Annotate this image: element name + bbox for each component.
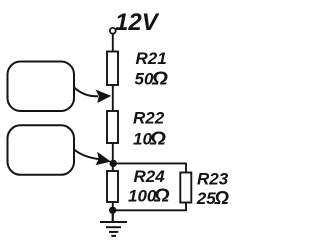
wire R24 to ground node B <box>112 201 114 222</box>
resistor R22 <box>107 111 118 143</box>
wire from supply terminal to R21 <box>112 34 114 54</box>
arrow 2 shaft (callout 2 to node A) <box>74 150 100 160</box>
svg-text:Ω: Ω <box>149 127 167 148</box>
wire R22 to R24 through node A <box>112 142 114 172</box>
resistor R21 <box>107 52 118 86</box>
svg-text:12V: 12V <box>115 9 160 36</box>
node B junction dot <box>109 207 116 214</box>
node A junction dot <box>110 160 117 167</box>
svg-text:R23: R23 <box>197 170 229 189</box>
svg-text:25: 25 <box>196 189 216 208</box>
arrow 1 head <box>96 90 112 103</box>
resistor R23 <box>180 173 191 203</box>
arrow 1 shaft (callout 1 to R21-R22 wire) <box>74 88 98 97</box>
svg-text:Ω: Ω <box>153 185 170 206</box>
svg-text:R24: R24 <box>134 167 166 186</box>
svg-text:R22: R22 <box>133 109 165 128</box>
svg-text:100: 100 <box>128 187 157 206</box>
svg-text:R21: R21 <box>136 49 167 68</box>
supply terminal <box>110 28 116 34</box>
resistor R24 <box>107 171 118 202</box>
svg-text:Ω: Ω <box>151 67 169 88</box>
svg-text:Ω: Ω <box>213 187 229 208</box>
arrow 2 head <box>94 152 112 169</box>
wire node A to R23 top <box>113 163 186 173</box>
callout box 2 <box>8 125 75 175</box>
callout box 1 <box>8 62 75 112</box>
wire R23 bottom to node B <box>113 203 186 211</box>
wire R21 to R22 <box>112 84 114 112</box>
ground <box>100 210 127 236</box>
